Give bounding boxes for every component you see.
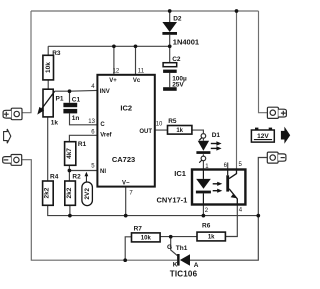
svg-text:R7: R7 bbox=[134, 225, 143, 232]
wire R6 to gate node bbox=[160, 236, 197, 238]
junction R2 common rail bbox=[68, 214, 72, 218]
svg-text:R3: R3 bbox=[52, 50, 61, 57]
node 2V2 voltage indicator bbox=[82, 172, 93, 206]
svg-text:2: 2 bbox=[205, 208, 209, 214]
svg-text:D2: D2 bbox=[173, 16, 182, 23]
svg-text:13: 13 bbox=[88, 119, 95, 125]
svg-text:OUT: OUT bbox=[139, 129, 152, 135]
pin 13 label bbox=[88, 119, 95, 125]
junction pin 11 V+ rail bbox=[134, 44, 138, 48]
svg-text:R1: R1 bbox=[78, 141, 87, 148]
wire IC1 pin 4 to R6 bbox=[225, 205, 237, 237]
svg-text:Vref: Vref bbox=[100, 132, 112, 138]
svg-text:12: 12 bbox=[113, 69, 120, 75]
svg-text:R4: R4 bbox=[50, 174, 59, 181]
IC IC2 CA723 regulator bbox=[97, 75, 154, 187]
connector right minus bbox=[267, 152, 286, 163]
svg-text:IC2: IC2 bbox=[120, 104, 132, 113]
capacitor C1 bbox=[63, 97, 80, 123]
IC1 pin 6 label bbox=[224, 163, 228, 169]
wire C2 leads bbox=[169, 46, 171, 87]
svg-text:2V2: 2V2 bbox=[84, 188, 91, 200]
pin 11 label bbox=[138, 69, 145, 75]
thyristor Th1 bbox=[167, 244, 199, 278]
svg-text:R6: R6 bbox=[202, 222, 211, 229]
connector right plus bbox=[267, 107, 286, 118]
junction pin5 riser top rail bbox=[235, 9, 239, 13]
wire D1 links bbox=[202, 138, 204, 169]
wire minus connector to bottom rail bbox=[22, 160, 177, 261]
wire R7 left to bottom rail bbox=[125, 237, 131, 260]
pin 12 label bbox=[113, 69, 120, 75]
wire gate lead bbox=[171, 237, 178, 256]
battery 12V bbox=[251, 128, 274, 143]
pin 6 label bbox=[91, 130, 95, 136]
wire pin 11 lead bbox=[135, 46, 137, 75]
resistor R3 bbox=[43, 50, 61, 80]
pin 5 label bbox=[91, 163, 95, 169]
svg-text:NI: NI bbox=[100, 169, 106, 175]
svg-text:10k: 10k bbox=[45, 62, 52, 73]
wire pin 7 lead bbox=[125, 187, 127, 216]
svg-text:4: 4 bbox=[91, 84, 95, 90]
svg-text:D1: D1 bbox=[212, 132, 221, 139]
wire bottom common rail bbox=[48, 205, 259, 215]
wire IC1 pin 5 riser bbox=[236, 11, 238, 170]
resistor R6 bbox=[197, 222, 225, 241]
wire Vref pin 6 bbox=[69, 135, 97, 141]
svg-text:K: K bbox=[173, 262, 178, 269]
connector left plus bbox=[3, 108, 22, 120]
junction pin 2 common rail bbox=[202, 214, 206, 218]
junction NI node bbox=[68, 169, 72, 173]
svg-text:12V: 12V bbox=[257, 133, 269, 140]
svg-text:10: 10 bbox=[156, 122, 163, 128]
potentiometer P1 bbox=[37, 89, 64, 126]
LED D1 bbox=[196, 132, 221, 163]
resistor R7 bbox=[132, 225, 161, 242]
IC1 pin 5 label bbox=[239, 162, 243, 168]
resistor R5 bbox=[168, 118, 192, 134]
junction R7 cathode rail bbox=[123, 258, 127, 262]
junction common rail right bbox=[256, 214, 260, 218]
optocoupler IC1 bbox=[157, 169, 246, 205]
IC1 pin 4 label bbox=[239, 208, 243, 214]
svg-text:4k7: 4k7 bbox=[66, 148, 73, 159]
wire R2 bottom lead bbox=[69, 205, 71, 215]
svg-text:R5: R5 bbox=[168, 118, 177, 125]
wire NI node bbox=[69, 165, 97, 181]
pin 4 label bbox=[91, 84, 95, 90]
junction INV node bbox=[68, 89, 72, 93]
svg-text:2k2: 2k2 bbox=[44, 187, 51, 198]
junction D2 top rail bbox=[168, 9, 172, 13]
svg-text:R2: R2 bbox=[72, 174, 81, 181]
wire D2 leads bbox=[169, 11, 171, 46]
svg-text:1k: 1k bbox=[176, 128, 183, 134]
wire P1 to R4 bbox=[47, 117, 49, 181]
wire OUT pin 10 to R5 to D1 bbox=[155, 130, 204, 133]
svg-text:A: A bbox=[194, 262, 199, 269]
svg-text:CA723: CA723 bbox=[112, 155, 135, 164]
wire pin 12 lead bbox=[113, 46, 115, 75]
svg-text:P1: P1 bbox=[56, 95, 64, 102]
svg-text:INV: INV bbox=[100, 89, 110, 95]
svg-text:2k2: 2k2 bbox=[66, 187, 73, 198]
svg-text:11: 11 bbox=[138, 69, 145, 75]
svg-text:4: 4 bbox=[239, 208, 243, 214]
svg-text:5: 5 bbox=[239, 162, 243, 168]
svg-text:1N4001: 1N4001 bbox=[173, 37, 199, 46]
junction pin 7 common rail bbox=[124, 214, 128, 218]
wire V+ rail bbox=[48, 46, 170, 55]
svg-text:5: 5 bbox=[91, 163, 95, 169]
svg-text:7: 7 bbox=[129, 191, 133, 197]
resistor R2 bbox=[65, 174, 81, 206]
pin 7 label bbox=[129, 191, 133, 197]
wire R3 to P1 bbox=[47, 80, 49, 89]
resistor R4 bbox=[43, 174, 59, 206]
svg-text:Vc: Vc bbox=[133, 78, 141, 84]
diode D2 bbox=[162, 16, 199, 47]
IC1 pin 2 label bbox=[205, 208, 209, 214]
wire IC1 pin 2 lead bbox=[202, 205, 204, 216]
wire left rail to plus connector bbox=[22, 11, 31, 113]
IC1 pin 1 label bbox=[205, 164, 209, 170]
svg-text:TIC106: TIC106 bbox=[170, 269, 198, 278]
junction pin 12 V+ rail bbox=[112, 44, 116, 48]
svg-text:V+: V+ bbox=[109, 78, 117, 84]
capacitor C2 bbox=[163, 56, 187, 91]
svg-text:10k: 10k bbox=[141, 236, 152, 242]
svg-text:1k: 1k bbox=[208, 235, 215, 241]
wire top rail bbox=[31, 10, 259, 12]
svg-text:G: G bbox=[167, 244, 172, 251]
wire C1 leads to pin 13 bbox=[70, 91, 98, 125]
arrow right output bbox=[281, 127, 290, 144]
svg-text:C: C bbox=[100, 122, 105, 128]
svg-text:C2: C2 bbox=[172, 56, 181, 63]
svg-text:25V: 25V bbox=[172, 81, 184, 88]
arrow left output bbox=[4, 129, 11, 143]
wire INV node bbox=[55, 89, 98, 92]
svg-text:6: 6 bbox=[91, 130, 95, 136]
wire IC1 pin 6 stub bbox=[227, 163, 229, 170]
svg-text:C1: C1 bbox=[72, 97, 81, 104]
svg-text:1k: 1k bbox=[51, 119, 59, 126]
svg-text:1n: 1n bbox=[72, 115, 80, 122]
svg-text:IC1: IC1 bbox=[174, 169, 186, 178]
svg-text:CNY17-1: CNY17-1 bbox=[157, 195, 188, 204]
junction C2 V+ rail bbox=[168, 44, 172, 48]
pin 10 label bbox=[156, 122, 163, 128]
wire thyristor anode to right vertical bbox=[190, 158, 267, 261]
resistor R1 bbox=[65, 141, 87, 165]
svg-text:Th1: Th1 bbox=[176, 245, 188, 252]
svg-text:V−: V− bbox=[122, 180, 130, 186]
junction gate node bbox=[169, 235, 173, 239]
wire right vertical to plus connector bbox=[259, 11, 268, 113]
connector left minus bbox=[3, 155, 22, 166]
